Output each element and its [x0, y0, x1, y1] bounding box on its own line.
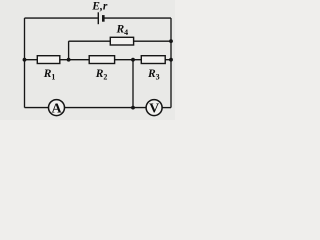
- wire bottom-left to ammeter: [25, 107, 49, 109]
- junction node R1-R2: [67, 58, 71, 62]
- resistor R1: [37, 56, 60, 64]
- wire R1 to R2: [60, 59, 89, 61]
- wire R4 to right border: [134, 40, 171, 42]
- wire middle vertical (node to bottom): [132, 60, 134, 108]
- svg-text:V: V: [149, 101, 159, 116]
- svg-text:E,r: E,r: [91, 1, 108, 13]
- wire R4 branch left: [69, 40, 111, 42]
- wire right border: [170, 18, 172, 108]
- wire R1 row left: [25, 59, 38, 61]
- battery E,r short thick plate: [102, 15, 105, 22]
- paper background: [0, 0, 175, 120]
- wire ammeter to voltmeter: [65, 107, 147, 109]
- wire R2 to R3: [115, 59, 142, 61]
- resistor R4: [110, 37, 133, 45]
- resistor R3: [141, 56, 165, 64]
- junction node R4 right: [169, 39, 173, 43]
- wire top-right (battery right lead): [104, 17, 171, 19]
- svg-text:A: A: [52, 101, 63, 116]
- junction node R2-R3: [131, 58, 135, 62]
- battery E,r long plate: [97, 12, 99, 24]
- resistor R2: [89, 56, 114, 64]
- ammeter A circle: [49, 100, 65, 116]
- junction node left (R1 left): [23, 58, 27, 62]
- wire left border: [24, 18, 26, 108]
- junction node bottom: [131, 106, 135, 110]
- junction node R3 right: [169, 58, 173, 62]
- wire R3 to right border: [165, 59, 171, 61]
- wire R4 branch vertical: [68, 41, 70, 60]
- wire voltmeter to right border: [162, 107, 171, 109]
- voltmeter V circle: [146, 100, 162, 116]
- wire top-left (battery left lead): [25, 17, 98, 19]
